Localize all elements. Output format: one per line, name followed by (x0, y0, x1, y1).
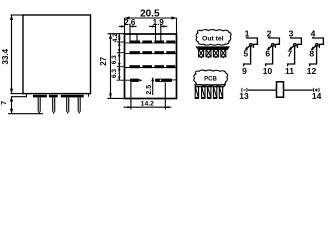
svg-text:7: 7 (1, 101, 8, 105)
svg-text:Out tel: Out tel (202, 36, 224, 43)
extension line left 20.5 (124, 18, 126, 34)
relay base step left (26, 94, 28, 97)
svg-text:4.2: 4.2 (112, 33, 119, 42)
contact pole 1 (242, 29, 257, 76)
Out tel pin 1 (199, 49, 204, 58)
relay body side view (23, 15, 91, 94)
svg-text:27: 27 (99, 56, 108, 65)
pin bottom extension line (8, 113, 43, 115)
Out tel pin 3 (213, 49, 218, 58)
svg-text:6.3: 6.3 (111, 69, 118, 78)
extension line right 20.5 (176, 18, 178, 34)
pad row 3 (117, 65, 177, 68)
svg-text:8: 8 (309, 48, 314, 58)
svg-text:6: 6 (265, 48, 270, 58)
pin pedestal bar 3 (61, 95, 84, 98)
extension line 14.2 left (130, 82, 132, 110)
PCB pin 3 (207, 87, 211, 99)
arrow up 33.4 (10, 15, 13, 20)
Out tel cloud (196, 30, 231, 46)
PCB pin 1 (195, 87, 199, 99)
arrow down 33.4 (10, 89, 13, 94)
PCB connector body (195, 85, 225, 87)
svg-text:2.5: 2.5 (146, 85, 153, 95)
pin 1 side view (38, 97, 40, 114)
svg-text:14: 14 (312, 91, 322, 101)
svg-text:13: 13 (239, 91, 249, 101)
pad row 4 left (117, 79, 143, 82)
dimension line 14.2 (131, 106, 165, 108)
PCB cloud (194, 70, 228, 86)
pin pedestal bar 1 (33, 95, 47, 98)
Out tel pin 4 (221, 49, 226, 58)
svg-text:33.4: 33.4 (1, 48, 10, 64)
Out tel connector body (197, 47, 230, 49)
svg-text:14.2: 14.2 (141, 100, 154, 107)
svg-text:10: 10 (263, 66, 273, 76)
coil (277, 82, 284, 97)
coil terminal mark plus right (313, 88, 319, 92)
pin 3 side view (67, 97, 69, 114)
svg-text:9: 9 (242, 66, 247, 76)
contact pole 2 (263, 29, 280, 76)
pin pedestal bar 2 (49, 95, 58, 98)
svg-text:6.3: 6.3 (111, 55, 118, 64)
arrow right 20.5 (172, 16, 177, 19)
PCB pin 5 (219, 87, 223, 99)
pad row 2 (117, 51, 177, 54)
dim arrows 2.6 top (119, 24, 137, 41)
coil terminal mark minus left (242, 88, 247, 92)
extension line 14.2 right (164, 83, 166, 110)
PCB pin 2 (201, 87, 205, 99)
arrow left 20.5 (125, 16, 130, 19)
arrow 14.2 right outside (165, 106, 171, 108)
contact pole 3 (285, 29, 301, 76)
Out tel pin 2 (206, 49, 211, 58)
arrow 14.2 left outside (124, 106, 131, 108)
dimension line 27 (110, 34, 112, 99)
svg-text:5: 5 (243, 48, 248, 58)
arrow up 7 (10, 97, 13, 102)
dimension line 7 (11, 97, 13, 114)
7-dim top extension line (11, 96, 27, 98)
dim arrows 1.9 top (149, 24, 167, 41)
dimension line 33.4 (11, 16, 13, 94)
chain dimension line 4.2/6.3 (118, 34, 120, 80)
dimension line 20.5 (125, 17, 177, 19)
extension line 27 bottom (108, 97, 125, 99)
top extension line (11, 14, 24, 16)
bottom extension line 33.4 (11, 93, 24, 95)
svg-text:12: 12 (307, 66, 317, 76)
pin 4 side view (78, 97, 80, 114)
svg-text:11: 11 (285, 66, 294, 76)
relay base step right (88, 94, 90, 97)
extension line 27 top (108, 33, 125, 35)
pin 2 side view (53, 97, 55, 114)
arrow down 7 (10, 109, 13, 114)
pad row 1 (117, 41, 177, 44)
svg-text:7: 7 (287, 48, 292, 58)
PCB pin 4 (213, 87, 217, 99)
relay bottom view outline (125, 34, 177, 99)
coil wire (248, 89, 313, 91)
contact pole 4 (307, 29, 324, 76)
svg-text:PCB: PCB (204, 76, 217, 82)
pad row 4 right (155, 79, 176, 82)
arrow 2.5 bottom (152, 78, 154, 95)
